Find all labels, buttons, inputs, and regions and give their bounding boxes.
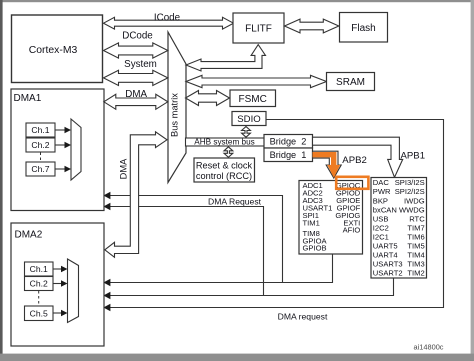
svg-text:DMA: DMA	[119, 158, 129, 179]
svg-text:IWDG: IWDG	[404, 196, 425, 205]
svg-text:I2C2: I2C2	[373, 223, 389, 232]
svg-text:TIM3: TIM3	[407, 260, 424, 269]
svg-text:SPI3/I2S: SPI3/I2S	[395, 178, 425, 187]
svg-text:TIM7: TIM7	[407, 223, 424, 232]
svg-text:DMA Request: DMA Request	[208, 196, 262, 206]
svg-text:DCode: DCode	[122, 31, 153, 42]
svg-text:control (RCC): control (RCC)	[196, 171, 252, 181]
svg-text:UART4: UART4	[373, 250, 398, 259]
svg-text:TIM2: TIM2	[407, 269, 424, 278]
svg-text:FLITF: FLITF	[245, 24, 272, 35]
svg-text:TIM4: TIM4	[407, 250, 424, 259]
svg-text:SPI2/I2S: SPI2/I2S	[395, 187, 425, 196]
svg-text:USART3: USART3	[373, 260, 403, 269]
svg-text:Reset & clock: Reset & clock	[196, 161, 253, 171]
svg-text:System: System	[124, 59, 157, 70]
svg-text:TIM6: TIM6	[407, 232, 424, 241]
svg-text:DMA request: DMA request	[278, 311, 328, 321]
svg-text:Ch.1: Ch.1	[30, 264, 48, 274]
svg-text:BKP: BKP	[373, 196, 388, 205]
svg-text:SDIO: SDIO	[237, 114, 260, 125]
svg-text:ICode: ICode	[154, 12, 181, 23]
svg-text:TIM1: TIM1	[303, 218, 320, 227]
svg-text:bxCAN: bxCAN	[373, 205, 397, 214]
svg-text:DMA2: DMA2	[15, 230, 43, 241]
svg-text:APB2: APB2	[342, 155, 367, 166]
svg-text:Bus matrix: Bus matrix	[170, 93, 180, 137]
svg-text:PWR: PWR	[373, 187, 391, 196]
svg-text:USART2: USART2	[373, 269, 403, 278]
svg-text:FSMC: FSMC	[239, 94, 267, 105]
svg-text:USB: USB	[373, 214, 389, 223]
svg-text:ai14800c: ai14800c	[414, 343, 444, 352]
svg-text:APB1: APB1	[401, 150, 426, 161]
svg-text:UART5: UART5	[373, 241, 398, 250]
svg-text:Ch.1: Ch.1	[31, 125, 49, 135]
svg-text:DMA1: DMA1	[14, 93, 42, 104]
svg-text:Bridge 1: Bridge 1	[270, 150, 307, 160]
svg-text:Bridge 2: Bridge 2	[270, 137, 307, 147]
svg-text:GPIOB: GPIOB	[303, 244, 327, 253]
svg-text:Flash: Flash	[351, 23, 375, 34]
svg-text:Ch.5: Ch.5	[30, 308, 48, 318]
svg-text:WWDG: WWDG	[399, 205, 425, 214]
svg-text:AFIO: AFIO	[343, 226, 361, 235]
svg-text:I2C1: I2C1	[373, 232, 389, 241]
svg-text:DAC: DAC	[373, 178, 390, 187]
svg-text:AHB system bus: AHB system bus	[194, 137, 255, 146]
svg-text:SRAM: SRAM	[336, 77, 365, 88]
svg-text:Ch.2: Ch.2	[30, 279, 48, 289]
svg-text:Cortex-M3: Cortex-M3	[29, 45, 78, 56]
svg-text:Ch.7: Ch.7	[31, 164, 49, 174]
svg-text:RTC: RTC	[409, 214, 425, 223]
svg-text:DMA: DMA	[125, 89, 147, 100]
svg-text:TIM5: TIM5	[407, 241, 424, 250]
svg-text:Ch.2: Ch.2	[31, 140, 49, 150]
